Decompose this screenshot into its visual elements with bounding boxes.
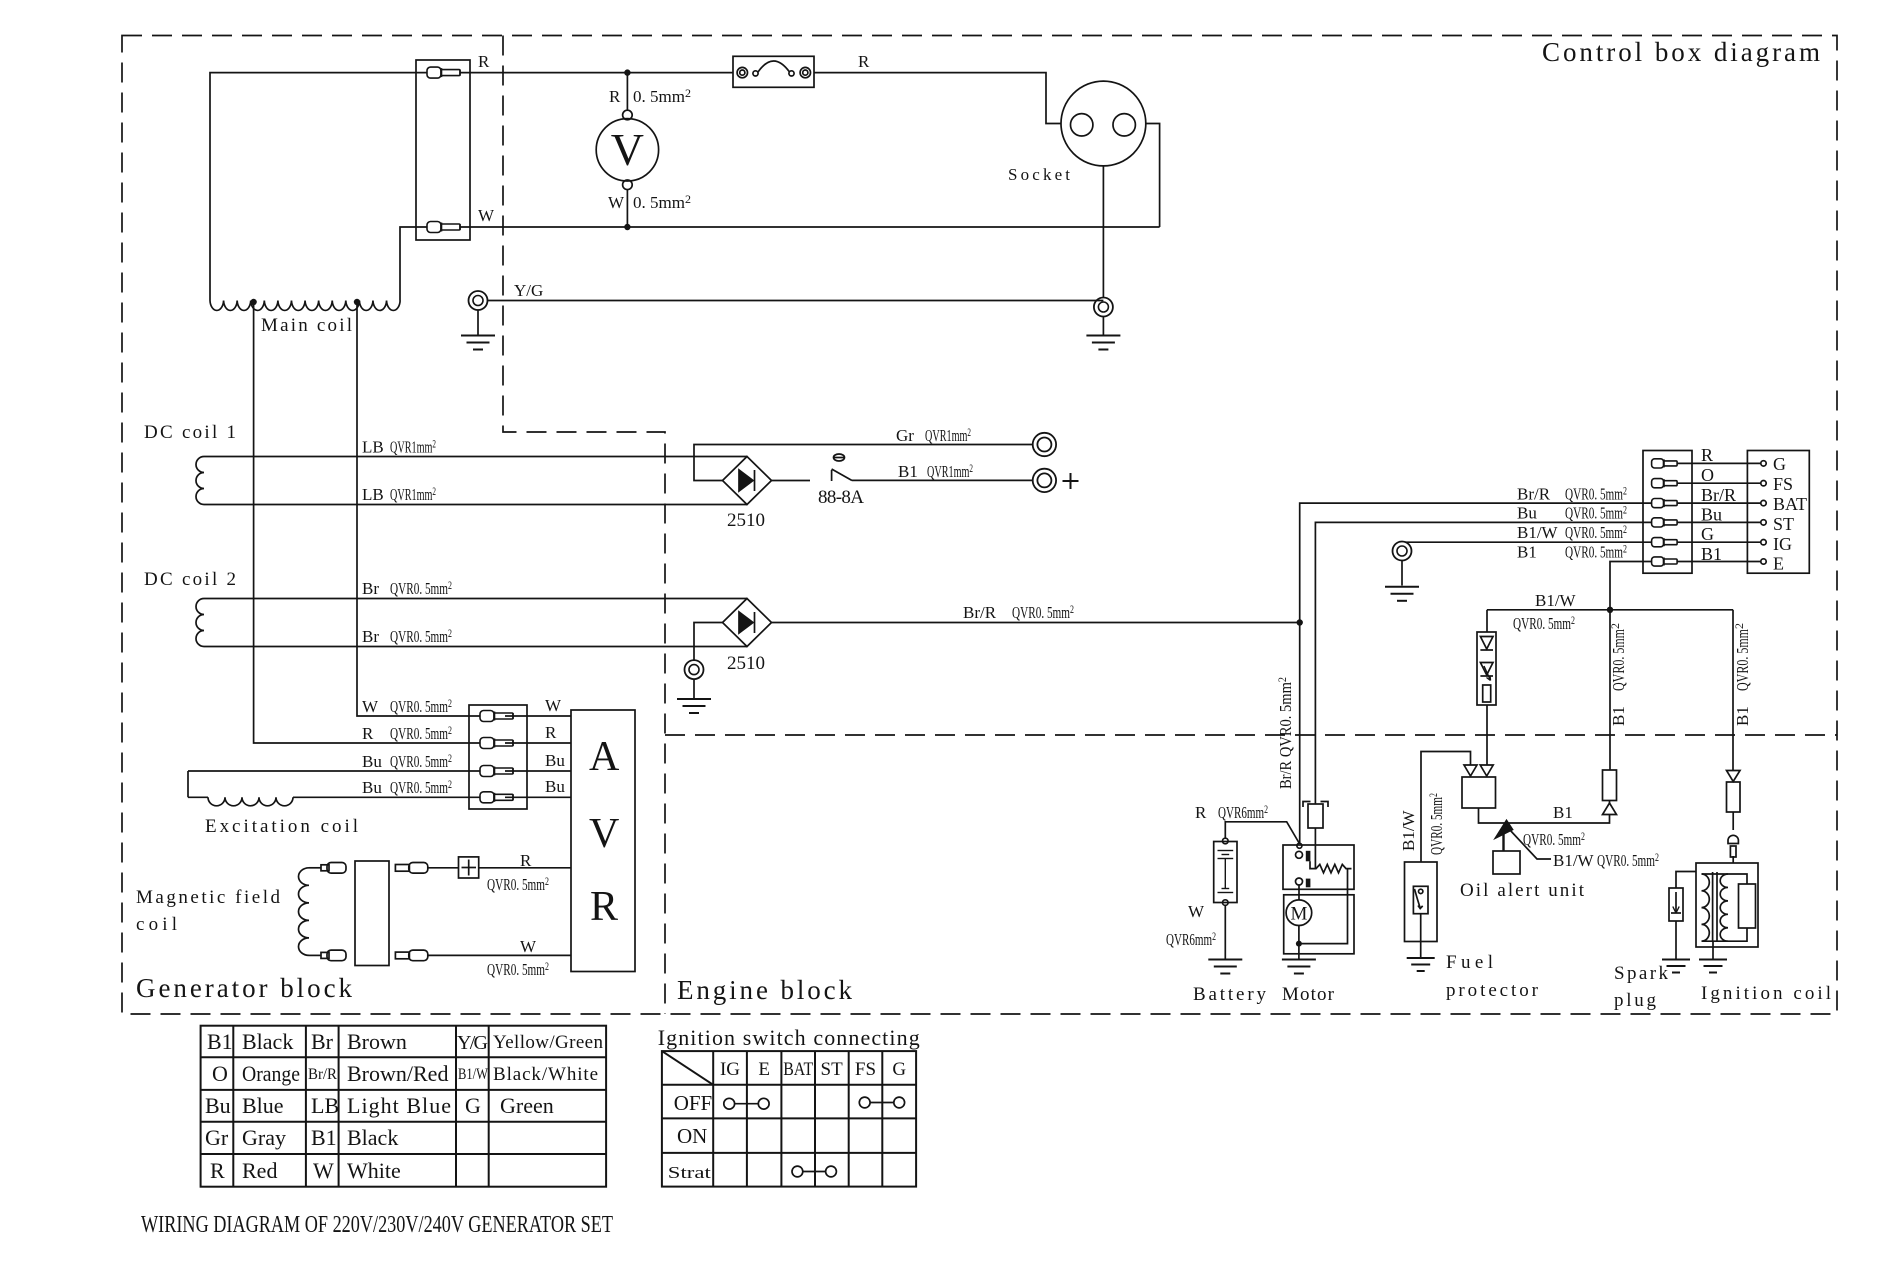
motor box (1284, 895, 1354, 954)
oil unit input triangles (1464, 765, 1477, 776)
battery BT1 terminals (1223, 838, 1229, 844)
connector CN4 pin G (1652, 538, 1678, 547)
wire R from main coil to connector and fuse (210, 73, 733, 301)
wire spark plug to ground (1675, 921, 1677, 959)
svg-text:Brown: Brown (347, 1029, 407, 1054)
svg-text:OFF: OFF (674, 1091, 713, 1115)
svg-text:QVR0. 5mm2: QVR0. 5mm2 (1012, 602, 1074, 622)
svg-text:Br: Br (311, 1029, 334, 1054)
pin pair bottom right (395, 950, 427, 961)
svg-text:B1: B1 (1701, 544, 1722, 564)
svg-text:Generator block: Generator block (136, 973, 353, 1003)
svg-text:Gr: Gr (896, 426, 914, 445)
svg-text:R: R (210, 1158, 225, 1183)
wire CN4 Bu to SW2 ST (1677, 521, 1761, 523)
spark plug cap (1728, 835, 1738, 857)
svg-text:W: W (478, 206, 495, 225)
svg-text:R: R (362, 724, 374, 743)
T1 ground stem (1712, 941, 1714, 958)
housing CN3 (355, 861, 389, 966)
svg-text:Socket: Socket (1008, 165, 1070, 184)
socket SK1 left hole (1071, 114, 1093, 136)
svg-text:R: R (609, 87, 621, 106)
svg-text:FS: FS (1773, 474, 1793, 494)
wire Bu1 to AVR (505, 770, 571, 772)
svg-text:Magnetic field: Magnetic field (136, 887, 281, 908)
connector CN4 pin O (1652, 479, 1678, 488)
svg-text:Br/R: Br/R (308, 1066, 337, 1083)
wire V1 main coil tap1 to AVR connector R (254, 302, 480, 743)
svg-text:B1: B1 (1553, 803, 1573, 822)
svg-text:88-8A: 88-8A (818, 487, 864, 508)
wire voltmeter top stub (626, 73, 628, 111)
terminal SW2 pin ST (1761, 520, 1766, 525)
svg-text:QVR6mm2: QVR6mm2 (1218, 802, 1268, 822)
magnetic field coil L5 (299, 868, 310, 956)
svg-text:Light Blue: Light Blue (347, 1093, 451, 1118)
wire fuel protector to triangle (1421, 752, 1471, 863)
svg-text:QVR1mm2: QVR1mm2 (390, 437, 436, 457)
relay contact circle 1 (1296, 851, 1303, 858)
svg-text:FS: FS (855, 1059, 876, 1080)
svg-text:A: A (589, 734, 620, 780)
svg-text:Black/White: Black/White (493, 1064, 598, 1085)
svg-text:QVR0. 5mm2: QVR0. 5mm2 (390, 751, 452, 771)
wire V2 main coil tap2 to AVR connector W (357, 302, 480, 716)
fuse F1 element arc (753, 71, 758, 76)
ignition table grid (662, 1051, 916, 1187)
svg-text:QVR1mm2: QVR1mm2 (925, 425, 971, 445)
terminal SW2 pin G (1761, 461, 1766, 466)
svg-text:Br/R: Br/R (1517, 485, 1551, 504)
wire Gr from rectifier D1 (694, 445, 1033, 481)
outer dashed frame (122, 36, 1837, 1015)
svg-text:Y/G: Y/G (457, 1032, 488, 1054)
ground E4 (1385, 587, 1419, 601)
svg-text:Motor: Motor (1282, 984, 1335, 1005)
svg-text:QVR0. 5mm2: QVR0. 5mm2 (390, 626, 452, 646)
wire W from main coil through connector to socket (400, 227, 1160, 301)
svg-text:Spark: Spark (1614, 963, 1669, 984)
OFF FS-G link (859, 1097, 870, 1108)
svg-text:QVR0. 5mm2: QVR0. 5mm2 (1426, 793, 1446, 855)
connector CN4 pin R (1652, 459, 1678, 468)
svg-text:BAT: BAT (783, 1059, 813, 1080)
T1 primary winding (1702, 874, 1710, 941)
svg-text:G: G (465, 1093, 481, 1118)
svg-text:QVR0. 5mm2: QVR0. 5mm2 (1523, 829, 1585, 849)
wire mag coil top (309, 867, 321, 869)
diode D4 up (1603, 803, 1617, 815)
svg-text:QVR0. 5mm2: QVR0. 5mm2 (1597, 850, 1659, 870)
ground spark plug (1662, 960, 1690, 973)
battery BT1 body (1214, 842, 1237, 903)
voltmeter V1 terminal top (623, 110, 633, 120)
terminal ring B1 plus (1033, 469, 1056, 492)
fuse F1 right terminal (800, 67, 810, 77)
svg-text:QVR0. 5mm2: QVR0. 5mm2 (390, 696, 452, 716)
wire Br2 (204, 646, 747, 648)
wire Br/R long (772, 622, 1300, 624)
svg-text:B1: B1 (207, 1029, 233, 1054)
pin pair top right (395, 863, 427, 874)
ground ring E3 (685, 660, 704, 679)
resistor R1 (1603, 770, 1617, 801)
oil alert relay box (1462, 777, 1496, 808)
connector CN1 pin R (427, 67, 460, 78)
svg-text:Bu: Bu (362, 752, 382, 771)
svg-text:Bu: Bu (1517, 504, 1537, 523)
svg-text:Bu: Bu (1701, 505, 1722, 525)
wire LB2 (204, 504, 747, 506)
connector CN4 housing (1643, 451, 1692, 574)
ignition switch block SW2 (1747, 451, 1809, 574)
wire zigzag to motor loop (1299, 869, 1347, 944)
svg-text:QVR0. 5mm2: QVR0. 5mm2 (487, 959, 549, 979)
wire R1 top handled above (1609, 801, 1611, 804)
T1 load resistor (1739, 884, 1756, 928)
terminal SW2 pin IG (1761, 540, 1766, 545)
svg-text:plug: plug (1614, 990, 1657, 1011)
DC coil 1 L2 (196, 457, 204, 505)
svg-text:G: G (1773, 454, 1786, 474)
svg-text:Br: Br (362, 579, 379, 598)
svg-text:QVR6mm2: QVR6mm2 (1166, 929, 1216, 949)
svg-text:Black: Black (347, 1125, 398, 1150)
socket SK1 body (1061, 81, 1146, 166)
svg-text:W: W (313, 1158, 334, 1183)
svg-text:WIRING DIAGRAM OF 220V/230V/24: WIRING DIAGRAM OF 220V/230V/240V GENERAT… (141, 1212, 613, 1238)
svg-text:Bu: Bu (205, 1093, 231, 1118)
connector CN2 pin Bu1 (480, 766, 513, 777)
wire B1 row to junction (1610, 562, 1652, 771)
svg-text:Yellow/Green: Yellow/Green (493, 1032, 604, 1053)
svg-text:Bu: Bu (545, 777, 565, 796)
socket SK1 right hole (1113, 114, 1135, 136)
svg-text:G: G (1701, 524, 1714, 544)
relay coil zigzag (1310, 861, 1352, 873)
svg-text:B1/W: B1/W (1535, 591, 1577, 610)
svg-text:LB: LB (362, 438, 384, 457)
svg-text:Bu: Bu (545, 751, 565, 770)
wire oil box to B1 wire (1479, 808, 1610, 823)
wire W to AVR bottom (428, 954, 571, 956)
AVR U1 box (571, 710, 635, 972)
svg-text:2510: 2510 (727, 510, 765, 531)
diode D5 ignition (1727, 771, 1741, 782)
wire R from fuse to socket (814, 73, 1061, 124)
ground E3 (677, 699, 711, 713)
svg-text:R: R (1701, 445, 1713, 465)
svg-text:White: White (347, 1158, 401, 1183)
svg-text:R: R (1195, 803, 1207, 822)
wire Bu row down (1315, 522, 1651, 804)
svg-text:E: E (1773, 554, 1784, 574)
connector CN4 pin B1 (1652, 557, 1678, 566)
svg-text:Y/G: Y/G (514, 281, 543, 300)
svg-text:V: V (589, 811, 619, 857)
node main coil tap 1 (250, 299, 256, 305)
wire socket bottom to ground (1102, 166, 1104, 298)
wire B1/W row to ground ring (1405, 541, 1652, 543)
connector CN2 housing (469, 705, 527, 809)
fuel protector switch (1413, 886, 1428, 913)
generator/engine dashed separator (503, 36, 665, 1015)
svg-text:QVR1mm2: QVR1mm2 (927, 461, 973, 481)
T1 secondary winding (1720, 874, 1728, 941)
wire Br1 (204, 598, 747, 600)
svg-text:QVR1mm2: QVR1mm2 (390, 484, 436, 504)
svg-text:LB: LB (311, 1093, 339, 1118)
svg-text:Oil alert unit: Oil alert unit (1460, 880, 1585, 901)
wire battery W to ground (1224, 905, 1226, 958)
rectifier D1 2510 (723, 457, 772, 505)
svg-text:V: V (611, 124, 644, 175)
svg-text:QVR0. 5mm2: QVR0. 5mm2 (1565, 522, 1627, 542)
terminal SW2 pin FS (1761, 481, 1766, 486)
svg-text:Brown/Red: Brown/Red (347, 1061, 448, 1086)
node motor junction (1296, 941, 1302, 947)
svg-text:R: R (520, 851, 532, 870)
svg-text:Green: Green (500, 1093, 554, 1118)
arrowhead (1496, 821, 1513, 839)
connector CN4 pin Bu (1652, 518, 1678, 527)
svg-text:BAT: BAT (1773, 494, 1807, 514)
svg-text:Engine block: Engine block (677, 975, 853, 1005)
ground E2 (1086, 336, 1120, 350)
wire battery R to relay (1225, 822, 1299, 844)
relay terminal circle (1297, 843, 1302, 848)
svg-text:Red: Red (242, 1158, 277, 1183)
pin pair bottom left (321, 950, 346, 961)
wire socket right side down to W (1146, 124, 1160, 228)
svg-text:R: R (858, 52, 870, 71)
legend table grid (201, 1026, 606, 1187)
fuse F1 left terminal (737, 67, 747, 77)
svg-text:B1: B1 (1733, 706, 1752, 726)
ground ring E4 (1393, 542, 1412, 561)
connector CN2 pin R (480, 738, 513, 749)
svg-text:Bu: Bu (362, 778, 382, 797)
spark plug P1 (1669, 888, 1683, 921)
fuse F1 box (733, 56, 814, 87)
T1 bottom connection (1702, 928, 1748, 941)
svg-text:Br: Br (362, 627, 379, 646)
node main coil tap 2 (354, 299, 360, 305)
node Br/R junction (1297, 619, 1303, 625)
wire down to LED block (1486, 610, 1488, 632)
svg-text:B1: B1 (898, 462, 918, 481)
svg-text:B1/W: B1/W (1553, 851, 1595, 870)
terminal SW2 pin E (1761, 559, 1766, 564)
wire B1 from switch to terminal (852, 479, 1033, 481)
ground ring E1 (469, 291, 488, 310)
wire Y/G (488, 300, 1104, 302)
connector CN2 pin W (480, 711, 513, 722)
svg-text:IG: IG (1773, 534, 1792, 554)
terminal SW2 pin BAT (1761, 500, 1766, 505)
node B1/W junction (1607, 607, 1613, 613)
wire B1/W horizontal (1487, 609, 1733, 611)
OFF IG-E link (724, 1098, 735, 1109)
switch 88-8A (772, 454, 853, 481)
relay contact bar 2 (1306, 879, 1311, 888)
svg-text:R: R (590, 884, 618, 930)
svg-text:Gr: Gr (205, 1125, 229, 1150)
wire LED to oil unit triangles (1486, 705, 1488, 765)
svg-text:E: E (758, 1059, 770, 1080)
wire F2 to relay coil (1314, 828, 1316, 869)
wire Bu2 to AVR (505, 796, 571, 798)
svg-text:W: W (362, 697, 379, 716)
svg-text:W: W (608, 193, 625, 212)
Strat BAT-ST link (792, 1166, 803, 1177)
relay contact bar 1 (1306, 851, 1311, 862)
svg-text:Main coil: Main coil (261, 315, 352, 336)
svg-text:IG: IG (720, 1059, 740, 1080)
ground motor (1282, 960, 1316, 974)
svg-text:QVR0. 5mm2: QVR0. 5mm2 (1565, 484, 1627, 504)
wire R to AVR bottom (479, 867, 571, 869)
svg-text:B1: B1 (1517, 543, 1537, 562)
svg-text:B1: B1 (1609, 706, 1628, 726)
svg-text:W: W (1188, 902, 1205, 921)
motor M1 circle (1286, 900, 1312, 926)
svg-text:G: G (892, 1059, 906, 1080)
wire CN4 G to SW2 IG (1677, 541, 1761, 543)
wire cap to ignition coil (1732, 856, 1734, 863)
ignition table diagonal (662, 1051, 713, 1085)
battery BT1 plates (1218, 851, 1234, 893)
fuse F2 body (1308, 804, 1323, 828)
wire down to ignition coil (1732, 610, 1734, 771)
node R junction at voltmeter (624, 69, 630, 75)
svg-text:QVR0. 5mm2: QVR0. 5mm2 (390, 723, 452, 743)
relay K1 box (1283, 845, 1354, 889)
svg-text:O: O (212, 1061, 228, 1086)
ground below fuel protector (1420, 914, 1422, 957)
svg-text:Gray: Gray (242, 1125, 286, 1150)
svg-text:QVR0. 5mm2: QVR0. 5mm2 (1565, 503, 1627, 523)
svg-text:QVR0. 5mm2: QVR0. 5mm2 (1565, 542, 1627, 562)
svg-text:QVR0. 5mm2: QVR0. 5mm2 (390, 578, 452, 598)
relay contact circle 2 (1296, 878, 1303, 885)
oil alert unit box (1493, 851, 1520, 874)
diode box D3 plus (459, 857, 479, 878)
wire voltmeter bottom stub (626, 190, 628, 227)
svg-text:Br/R QVR0. 5mm2: Br/R QVR0. 5mm2 (1275, 677, 1295, 789)
voltmeter V1 terminal bottom (623, 180, 633, 190)
wire LB1 (204, 456, 747, 458)
DC coil 2 L3 (196, 599, 204, 647)
svg-text:0. 5mm2: 0. 5mm2 (633, 192, 691, 212)
connector CN1 pin W (427, 222, 460, 233)
svg-text:R: R (545, 723, 557, 742)
ground battery (1208, 960, 1242, 974)
wire CN4 R to SW2 G (1677, 462, 1761, 464)
svg-text:B1/W: B1/W (1399, 809, 1418, 851)
svg-text:B1: B1 (311, 1125, 337, 1150)
wire contact2 to motor (1298, 885, 1300, 900)
ground E1 (461, 336, 495, 350)
excitation coil L4 (188, 771, 480, 806)
wire spark plug top (1676, 872, 1696, 889)
wire Br/R row to relay (1300, 503, 1652, 843)
svg-text:ON: ON (677, 1124, 707, 1148)
svg-text:B1/W: B1/W (1517, 523, 1559, 542)
control box / engine dashed separator (665, 734, 1837, 736)
svg-text:LB: LB (362, 485, 384, 504)
svg-text:W: W (520, 937, 537, 956)
svg-text:ST: ST (1773, 514, 1794, 534)
terminal ring Gr (1033, 433, 1056, 456)
ignition coil T1 box (1696, 863, 1758, 947)
svg-text:Strat: Strat (668, 1163, 711, 1182)
svg-text:ST: ST (821, 1059, 844, 1080)
wire R to AVR (505, 742, 571, 744)
wire CN4 B1 to SW2 E (1677, 561, 1761, 563)
svg-text:B1/W: B1/W (458, 1066, 489, 1083)
rectifier D2 2510 (723, 599, 772, 647)
svg-text:Ignition switch connecting: Ignition switch connecting (658, 1025, 920, 1050)
svg-text:O: O (1701, 465, 1714, 485)
node W junction at voltmeter (624, 224, 630, 230)
svg-text:coil: coil (136, 914, 177, 935)
pin pair top left (321, 863, 346, 874)
fuse holder bracket on Bu line (1303, 802, 1328, 808)
wire W to AVR (505, 715, 571, 717)
svg-text:Orange: Orange (242, 1061, 300, 1086)
svg-text:Control box diagram: Control box diagram (1542, 37, 1820, 67)
svg-text:Excitation coil: Excitation coil (205, 816, 358, 837)
leader line to oil alert unit (1502, 831, 1504, 851)
svg-text:QVR0. 5mm2: QVR0. 5mm2 (1608, 623, 1628, 691)
T1 top connection (1702, 874, 1748, 884)
svg-text:Black: Black (242, 1029, 293, 1054)
svg-text:Br/R: Br/R (963, 603, 997, 622)
connector CN1 housing (416, 60, 470, 240)
resistor R2 ignition (1727, 782, 1741, 812)
svg-text:QVR0. 5mm2: QVR0. 5mm2 (487, 874, 549, 894)
svg-text:M: M (1290, 904, 1307, 925)
svg-text:W: W (545, 696, 562, 715)
plus sign (1063, 473, 1079, 489)
svg-text:0. 5mm2: 0. 5mm2 (633, 86, 691, 106)
wire CN4 O to SW2 FS (1677, 482, 1761, 484)
svg-text:Blue: Blue (242, 1093, 284, 1118)
svg-text:QVR0. 5mm2: QVR0. 5mm2 (390, 777, 452, 797)
T1 core (1712, 872, 1714, 942)
connector CN2 pin Bu2 (480, 792, 513, 803)
svg-text:R: R (478, 52, 490, 71)
svg-text:protector: protector (1446, 980, 1539, 1001)
svg-text:QVR0. 5mm2: QVR0. 5mm2 (1732, 623, 1752, 691)
svg-text:Br/R: Br/R (1701, 485, 1736, 505)
oil LED block U2 (1477, 632, 1496, 705)
ground T1 (1699, 960, 1727, 973)
connector CN4 pin BrR (1652, 499, 1678, 508)
ground ring E2 (1094, 298, 1113, 317)
wire motor to junction (1298, 926, 1300, 959)
wire CN4 Br/R to SW2 BAT (1677, 502, 1761, 504)
wire mag coil bottom (309, 954, 321, 956)
wire to spark cap (1732, 812, 1734, 830)
fuel protector box SW3 (1405, 862, 1438, 942)
svg-text:2510: 2510 (727, 653, 765, 674)
leader diagonal to B1/W label (1509, 829, 1551, 859)
svg-text:QVR0. 5mm2: QVR0. 5mm2 (1513, 613, 1575, 633)
wire to diode box (428, 867, 459, 869)
